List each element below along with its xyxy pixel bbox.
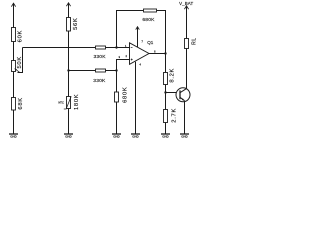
svg-text:2: 2 bbox=[126, 54, 128, 58]
ground bbox=[180, 134, 189, 139]
wire output bbox=[149, 53, 166, 55]
wire bbox=[165, 54, 167, 73]
svg-text:680K: 680K bbox=[123, 87, 129, 103]
wire emitter bbox=[184, 101, 186, 134]
resistor 680K feedback bbox=[142, 9, 156, 23]
resistor 68K bbox=[12, 97, 25, 110]
node noninverting junction bbox=[115, 69, 117, 71]
wire bbox=[13, 110, 15, 134]
svg-text:8.2K: 8.2K bbox=[170, 68, 176, 83]
wire bbox=[68, 109, 70, 134]
wire inverting input net bbox=[23, 47, 96, 49]
transistor T1 bbox=[176, 88, 190, 102]
svg-text:180K: 180K bbox=[74, 94, 80, 110]
wire base bbox=[166, 92, 181, 94]
svg-text:680K: 680K bbox=[142, 17, 155, 23]
svg-text:GND: GND bbox=[162, 135, 168, 139]
svg-text:GND: GND bbox=[132, 135, 138, 139]
wire bbox=[106, 47, 130, 49]
wire bbox=[68, 3, 70, 18]
svg-text:GND: GND bbox=[10, 135, 16, 139]
svg-text:7: 7 bbox=[141, 40, 143, 44]
ground bbox=[112, 134, 121, 139]
wire bbox=[13, 42, 15, 61]
wire bbox=[13, 3, 15, 27]
wire bbox=[186, 6, 188, 39]
svg-text:4: 4 bbox=[139, 63, 141, 67]
wire bbox=[165, 123, 167, 134]
thermistor NTC 180K bbox=[58, 94, 80, 110]
node inverting input junction bbox=[115, 46, 117, 48]
svg-text:60K: 60K bbox=[18, 30, 24, 42]
resistor 8.2K bbox=[164, 68, 176, 85]
node output junction bbox=[164, 52, 166, 54]
supply arrow op-amp V+ pin 7 bbox=[136, 27, 140, 48]
resistor RL bbox=[185, 37, 198, 48]
svg-text:2.7K: 2.7K bbox=[172, 108, 178, 123]
ground bbox=[161, 134, 170, 139]
resistor 330K lower bbox=[93, 69, 106, 84]
svg-text:Q1: Q1 bbox=[147, 40, 154, 45]
wire bbox=[165, 93, 167, 110]
ground bbox=[9, 134, 18, 139]
resistor 680K shunt bbox=[115, 87, 129, 103]
wire riser to noninverting input bbox=[116, 60, 130, 71]
supply arrow top-left bbox=[11, 3, 15, 6]
svg-text:RL: RL bbox=[191, 37, 197, 44]
wire op-amp V- pin 4 bbox=[135, 62, 137, 134]
net V_BAT bbox=[179, 1, 193, 9]
svg-text:330K: 330K bbox=[93, 78, 106, 84]
op-amp Q1 bbox=[119, 40, 157, 67]
wire feedback riser bbox=[116, 11, 144, 48]
svg-text:GND: GND bbox=[113, 135, 119, 139]
wiper wire bbox=[18, 48, 23, 74]
ground bbox=[131, 134, 140, 139]
node divider junction bbox=[67, 69, 69, 71]
wire noninverting branch bbox=[69, 70, 96, 72]
svg-text:6: 6 bbox=[154, 49, 156, 53]
wire bbox=[165, 85, 167, 93]
svg-text:56K: 56K bbox=[73, 17, 79, 29]
wire bbox=[106, 70, 117, 72]
svg-text:3: 3 bbox=[119, 55, 121, 59]
svg-text:68K: 68K bbox=[18, 97, 24, 109]
resistor 2.7K bbox=[164, 108, 178, 123]
node base junction bbox=[164, 91, 166, 93]
wire 680K shunt drop bbox=[116, 71, 118, 93]
wire bbox=[68, 31, 70, 97]
ground bbox=[64, 134, 73, 139]
wire collector bbox=[186, 49, 188, 89]
svg-text:GND: GND bbox=[65, 135, 71, 139]
resistor 56K bbox=[67, 17, 80, 31]
wire feedback to output bbox=[157, 10, 166, 54]
wire bbox=[13, 72, 15, 98]
wire bbox=[116, 102, 118, 134]
resistor 60K bbox=[12, 28, 24, 43]
svg-text:330K: 330K bbox=[93, 54, 106, 60]
resistor 330K upper bbox=[93, 46, 106, 60]
svg-text:GND: GND bbox=[181, 135, 187, 139]
supply arrow mid bbox=[66, 3, 70, 6]
svg-text:NTC: NTC bbox=[58, 101, 64, 105]
potentiometer 50K bbox=[12, 56, 24, 72]
